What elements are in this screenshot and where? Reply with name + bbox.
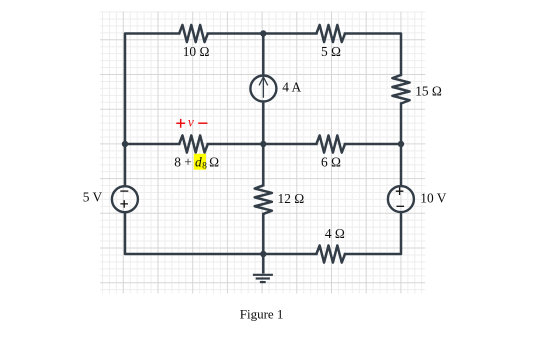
svg-text:Figure 1: Figure 1 — [240, 307, 284, 322]
highlight for d8 — [194, 154, 206, 170]
wire — [400, 104, 403, 186]
wire — [125, 213, 316, 254]
wire — [262, 144, 265, 185]
node center middle — [260, 141, 266, 147]
svg-text:5 Ω: 5 Ω — [321, 44, 341, 59]
svg-text:8: 8 — [202, 161, 207, 171]
node bottom center — [260, 251, 266, 257]
voltage source V1 5V circle — [112, 186, 138, 212]
node left middle — [122, 141, 128, 147]
wire — [262, 103, 265, 145]
svg-text:d: d — [195, 155, 202, 170]
svg-text:6 Ω: 6 Ω — [321, 155, 341, 170]
wire — [345, 34, 401, 75]
node top center — [260, 30, 266, 36]
svg-text:Ω: Ω — [209, 155, 219, 170]
svg-text:15 Ω: 15 Ω — [415, 83, 442, 98]
resistor R1 10 ohm — [179, 25, 208, 42]
voltage source V2 10V circle — [388, 186, 414, 212]
wire — [262, 214, 265, 254]
svg-text:4 A: 4 A — [282, 80, 301, 95]
wire — [208, 32, 317, 35]
label voltage polarity plus sign — [176, 119, 207, 128]
wire — [208, 143, 317, 146]
ground — [253, 254, 273, 282]
svg-text:10 V: 10 V — [420, 190, 446, 205]
voltage source V2 polarity signs — [396, 187, 404, 206]
resistor R2 5 ohm — [316, 25, 345, 42]
svg-text:4 Ω: 4 Ω — [325, 226, 345, 241]
current source I1 4A circle — [250, 76, 276, 102]
wire — [345, 213, 401, 254]
resistor R4 4 ohm — [316, 245, 345, 262]
svg-text:5 V: 5 V — [83, 190, 103, 205]
voltage source V1 polarity signs — [120, 191, 128, 208]
resistor R3 15 ohm — [392, 75, 409, 104]
wire — [125, 143, 179, 146]
resistor R5 12 ohm — [255, 185, 272, 214]
svg-text:12 Ω: 12 Ω — [278, 191, 305, 206]
node right middle — [398, 141, 404, 147]
svg-text:v: v — [188, 114, 194, 129]
svg-text:8 +: 8 + — [174, 155, 192, 170]
wire — [262, 34, 265, 75]
resistor R6 8+d8 ohm — [179, 135, 208, 152]
resistor R7 6 ohm — [316, 135, 345, 152]
current source I1 arrow — [259, 77, 267, 97]
svg-text:10 Ω: 10 Ω — [183, 44, 210, 59]
wire — [345, 143, 401, 146]
wire — [125, 34, 179, 187]
